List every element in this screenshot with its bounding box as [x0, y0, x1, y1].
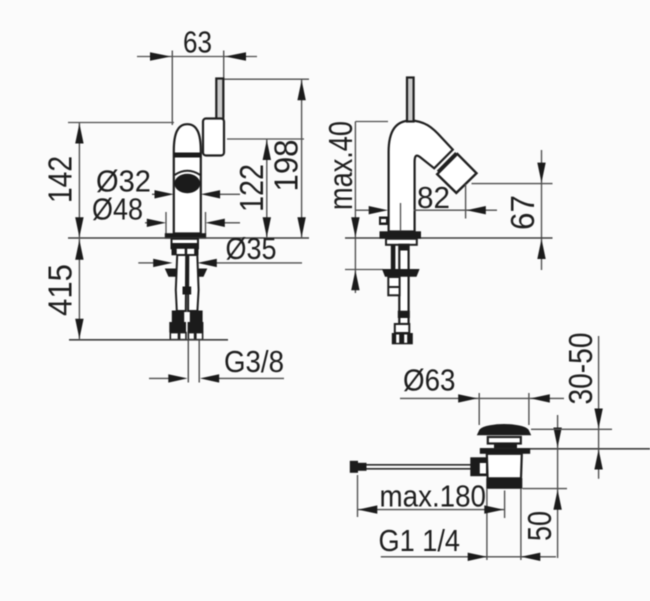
- basin line: [480, 448, 650, 450]
- stud block: [183, 287, 192, 295]
- pop-up rod: [358, 465, 471, 469]
- dim O63 line: [400, 397, 564, 399]
- svg-text:Ø35: Ø35: [226, 231, 277, 266]
- hose fitting side: [388, 277, 399, 295]
- connector hex faces: [170, 333, 202, 340]
- svg-text:max.180: max.180: [380, 479, 487, 514]
- rod end knob: [350, 461, 358, 473]
- flange side: [380, 231, 422, 238]
- side spray adjuster: [379, 217, 389, 226]
- hose nut right: [190, 311, 203, 323]
- svg-text:Ø48: Ø48: [92, 192, 143, 227]
- deck line front: [68, 237, 309, 239]
- dim 198 line: [301, 79, 303, 238]
- drain nut: [486, 478, 522, 489]
- dim O35 arrows: [153, 259, 217, 267]
- dim 82 line left: [356, 209, 370, 211]
- pipe connector side: [395, 324, 410, 333]
- svg-text:122: 122: [233, 164, 270, 212]
- svg-text:67: 67: [504, 195, 541, 230]
- plug neck: [488, 437, 521, 444]
- left stud side: [391, 245, 396, 269]
- dim O32 leader: [152, 193, 240, 195]
- dim 30-50 arrows: [594, 409, 602, 470]
- dim 63 line: [137, 56, 257, 58]
- fitting block dark: [172, 248, 199, 255]
- dim 63 arrows: [150, 52, 246, 60]
- dim G3/8 arrows: [168, 374, 219, 382]
- svg-text:50: 50: [521, 511, 558, 541]
- shank dark collar: [171, 243, 199, 248]
- nut side: [382, 269, 420, 277]
- lever rod side: [407, 78, 414, 122]
- tailpipe bottom ext: [523, 488, 568, 490]
- dim max.180 line: [358, 509, 505, 511]
- svg-text:G3/8: G3/8: [224, 344, 284, 379]
- dim 82 arrow left: [369, 206, 388, 214]
- base flange front: [165, 233, 206, 239]
- thread tails G3/8: [188, 341, 199, 383]
- drain flange: [480, 448, 530, 454]
- svg-text:30-50: 30-50: [562, 333, 599, 405]
- dim max.40 line: [354, 122, 356, 294]
- dim 50 arrows: [553, 428, 561, 510]
- spout arc front: [175, 171, 201, 175]
- dim 63 ext lines: [172, 51, 223, 126]
- internal hose line: [400, 203, 402, 231]
- dim 122 ext: [227, 138, 304, 140]
- dim O63 ext lines: [479, 393, 529, 425]
- faucet body front: [174, 124, 201, 233]
- svg-text:G1 1/4: G1 1/4: [379, 523, 461, 558]
- dim O35 leader: [138, 262, 302, 264]
- hose nut left: [172, 311, 184, 323]
- dim 67 line: [541, 150, 543, 270]
- svg-text:198: 198: [268, 140, 305, 192]
- dim G1 1/4 line: [381, 556, 556, 558]
- svg-text:max.40: max.40: [322, 121, 359, 210]
- dim 198 arrows: [297, 80, 305, 237]
- dim O63 arrows: [458, 394, 550, 402]
- shank box side: [386, 239, 417, 245]
- drain plug cap: [477, 424, 531, 435]
- deck line side: [345, 237, 553, 239]
- shank box below deck: [172, 239, 199, 249]
- pipe band side: [398, 311, 410, 318]
- svg-text:82: 82: [417, 180, 450, 215]
- dim 82 line right: [414, 209, 498, 211]
- dim 122 line: [266, 139, 268, 238]
- dim 415 line: [78, 238, 80, 340]
- dim 82 arrow right: [467, 206, 486, 214]
- svg-text:415: 415: [42, 264, 79, 316]
- lever boss block front: [203, 119, 224, 156]
- dim 67 arrows: [537, 163, 545, 259]
- main pipe side: [399, 245, 408, 324]
- svg-text:63: 63: [183, 25, 212, 60]
- supply hose right: [188, 255, 199, 311]
- dim O48 arrows: [147, 219, 225, 227]
- lever bar front: [216, 79, 223, 121]
- dim 50 line: [557, 415, 559, 558]
- faucet side body: [389, 121, 453, 232]
- supply hose left: [176, 255, 186, 311]
- dim max.40 arrows: [351, 217, 359, 290]
- dim 142 ext: [68, 122, 174, 124]
- cap top ext: [531, 428, 612, 430]
- svg-text:142: 142: [42, 156, 79, 203]
- dim max.180 arrows: [358, 505, 504, 513]
- centre stud: [184, 255, 190, 287]
- dim 142 arrows: [75, 124, 83, 238]
- plug seal band: [494, 443, 517, 449]
- tailpipe ext lines: [487, 489, 521, 560]
- dim 122 arrows: [263, 140, 271, 237]
- body joint band: [174, 153, 202, 158]
- spout outlet ellipse: [174, 174, 200, 194]
- dim G3/8 line: [149, 377, 284, 379]
- dim G1 1/4 arrows: [468, 553, 541, 561]
- mounting nut trapezoid: [165, 269, 208, 277]
- dim max.40 lower ext: [345, 269, 383, 271]
- wire 198 top extension: [224, 78, 309, 80]
- dim 30-50 line: [598, 336, 600, 479]
- dim max.40 top tick: [355, 121, 388, 123]
- aerator: [437, 154, 476, 193]
- hose connector left: [169, 322, 186, 333]
- dim 67 top ext: [472, 183, 553, 185]
- clevis block: [470, 457, 487, 476]
- drain body: [487, 454, 522, 479]
- spout ring: [438, 153, 456, 172]
- dim 142 line: [78, 123, 80, 239]
- svg-text:Ø63: Ø63: [403, 363, 456, 398]
- dim max.180 ext lines: [358, 475, 505, 518]
- dim 82 ext: [465, 184, 467, 219]
- hose connector right: [188, 322, 204, 333]
- bottom line 415 end: [69, 339, 228, 341]
- dim 415 arrows: [75, 240, 83, 339]
- dim O48 ext lines: [145, 212, 240, 234]
